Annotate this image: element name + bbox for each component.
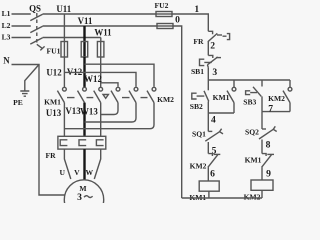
wire through FU2-2 (157, 25, 173, 27)
wire FR to motor U (64, 149, 70, 179)
svg-text:W11: W11 (94, 28, 111, 38)
link direction triangle (103, 95, 108, 99)
wire FR to motor W (94, 149, 100, 179)
start button SB2 (NO) (207, 80, 209, 90)
wire through FU1 fuse 3 (100, 42, 102, 58)
svg-text:9: 9 (266, 169, 271, 180)
svg-text:SB1: SB1 (191, 67, 204, 76)
svg-text:U11: U11 (56, 4, 71, 14)
wire U column KM1 to FR (63, 103, 65, 137)
limit switch SQ1 (208, 130, 212, 132)
svg-text:FR: FR (45, 151, 56, 160)
FR heater element 1 (60, 140, 67, 146)
wire L1 in (12, 13, 31, 15)
contactor KM1 interlock contact (NC) (262, 154, 266, 156)
svg-text:N: N (3, 56, 10, 66)
wire V column KM1 to FR (bold) (83, 103, 85, 137)
svg-text:PE: PE (13, 98, 23, 107)
wire V column fuse to KM1 (bold) (83, 57, 85, 87)
svg-text:KM1: KM1 (245, 156, 262, 165)
FR heater element 3 (96, 140, 103, 146)
svg-text:KM1: KM1 (213, 93, 230, 102)
contactor KM2 main contact 1 (116, 87, 120, 91)
wire node0 left rail (173, 26, 182, 198)
wire coil KM2 to bottom (261, 190, 263, 198)
svg-text:FU2: FU2 (155, 1, 169, 10)
svg-text:W13: W13 (80, 106, 98, 116)
wire KM2 NC to coil (207, 167, 209, 181)
svg-text:KM2: KM2 (190, 161, 207, 170)
wire KM2 pole3 loop to U13 (64, 103, 154, 129)
wire W column KM1 to FR (100, 103, 102, 137)
svg-text:QS: QS (29, 3, 41, 13)
wire L3 in (12, 37, 31, 39)
fuse FU1-3 body (97, 42, 104, 58)
mechanical link KM1-KM2 (dashes) (67, 97, 148, 99)
contactor KM1 main contact 2 (83, 87, 87, 91)
svg-text:6: 6 (210, 169, 215, 180)
svg-text:3: 3 (212, 67, 217, 78)
wire L3 after QS (43, 37, 101, 39)
wire branch V12 to KM2 pole3 (85, 64, 155, 87)
fuse FU1-2 body (81, 42, 88, 58)
svg-text:3: 3 (77, 192, 82, 203)
svg-text:KM1: KM1 (44, 98, 61, 107)
wire PE branch (25, 65, 39, 91)
wire branch W12 to KM2 pole1 (101, 83, 118, 87)
svg-text:V: V (74, 168, 80, 177)
motor M circle (64, 180, 103, 219)
wire L1 after QS to FU2 (43, 13, 156, 15)
wire V11 drop (bold) (83, 26, 85, 42)
switch QS pole 1 blade (30, 14, 42, 20)
svg-text:U13: U13 (46, 108, 62, 118)
svg-text:V13: V13 (65, 106, 81, 116)
wire KM1 NC to coil (261, 167, 263, 180)
wire bottom control bus (182, 197, 262, 199)
FR heater element 2 (79, 140, 86, 146)
thermal relay FR contact (NC) (208, 31, 212, 34)
svg-text:U12: U12 (46, 68, 62, 78)
contactor KM2 aux contact (NO) (289, 80, 291, 87)
ground PE symbol (20, 91, 29, 96)
switch QS handle hook (37, 44, 45, 50)
svg-text:FR: FR (193, 37, 204, 46)
coil KM2 (251, 180, 273, 190)
svg-text:2: 2 (210, 40, 215, 51)
contactor KM2 main contact 3 (152, 87, 156, 91)
thermal relay FR heater box (58, 136, 106, 149)
wire U column fuse to KM1 (63, 57, 65, 87)
wire through FU2-1 (156, 13, 172, 15)
wire SQ2 to KM1 NC (261, 140, 263, 154)
stop button SB1 (NC) (208, 55, 213, 58)
switch QS mechanical link (dashed) (36, 13, 38, 45)
wire to SQ1 (207, 113, 209, 131)
wire branch U12 to KM2 pole2 (64, 72, 136, 86)
svg-text:L2: L2 (2, 21, 11, 30)
svg-text:W: W (86, 168, 94, 177)
wire W column fuse to KM1 (100, 57, 102, 87)
svg-text:8: 8 (266, 140, 271, 151)
wire W11 drop (100, 38, 102, 42)
switch QS pole 2 blade (30, 26, 42, 32)
svg-text:0: 0 (175, 14, 180, 25)
svg-text:L1: L1 (2, 9, 11, 18)
svg-text:SB2: SB2 (190, 102, 203, 111)
wire to SQ2 (261, 112, 263, 129)
limit switch SQ2 (262, 128, 266, 130)
wire through FU1 fuse 1 (63, 42, 65, 58)
svg-text:KM2: KM2 (268, 94, 285, 103)
svg-text:KM2: KM2 (157, 95, 174, 104)
wire top branch bar (208, 79, 290, 81)
wire L2 after QS to FU2 (43, 25, 157, 27)
wire SQ1 to KM2 NC (207, 142, 209, 154)
wire KM2 pole1 loop to W13 (101, 103, 118, 115)
wire FR to SB1 (207, 42, 209, 56)
svg-text:W12: W12 (84, 74, 102, 84)
fuse FU1-1 body (61, 42, 68, 58)
wire coil KM1 to bottom (208, 191, 210, 198)
wire KM2 pole2 loop to V13 (85, 103, 137, 122)
contactor KM1 main contact 1 (63, 87, 67, 91)
FR trip paddle (223, 34, 230, 40)
wire left branch bottom bar (208, 112, 234, 114)
wire FR to motor V (bold) (83, 149, 85, 180)
svg-text:U: U (60, 168, 66, 177)
wire N (12, 65, 66, 196)
svg-text:V11: V11 (78, 16, 93, 26)
switch QS pole 3 blade (30, 38, 42, 44)
contactor KM2 main contact 2 (134, 87, 138, 91)
start button SB3 (NO) (261, 80, 263, 87)
wire L2 in (12, 25, 31, 27)
svg-text:FU1: FU1 (47, 47, 61, 56)
svg-text:KM2: KM2 (244, 193, 261, 202)
wire SB1 to bar (207, 67, 209, 80)
wire node1 to right rail (172, 14, 208, 31)
svg-text:SQ2: SQ2 (245, 128, 259, 137)
wire through FU1 fuse 2 (bold) (83, 42, 85, 58)
wire right branch bottom bar (262, 111, 290, 113)
fuse FU2-1 body (156, 12, 172, 17)
contactor KM1 main contact 3 (99, 87, 103, 91)
svg-text:SQ1: SQ1 (192, 130, 206, 139)
coil KM1 (199, 181, 219, 191)
contactor KM1 aux contact (NO) (233, 80, 235, 87)
fuse FU2-2 body (157, 24, 173, 29)
contactor KM2 interlock contact (NC) (208, 154, 212, 156)
svg-text:SB3: SB3 (243, 98, 256, 107)
svg-text:7: 7 (268, 103, 273, 114)
wire U11 drop (63, 14, 65, 42)
svg-text:4: 4 (211, 115, 216, 126)
svg-text:L3: L3 (2, 32, 11, 41)
